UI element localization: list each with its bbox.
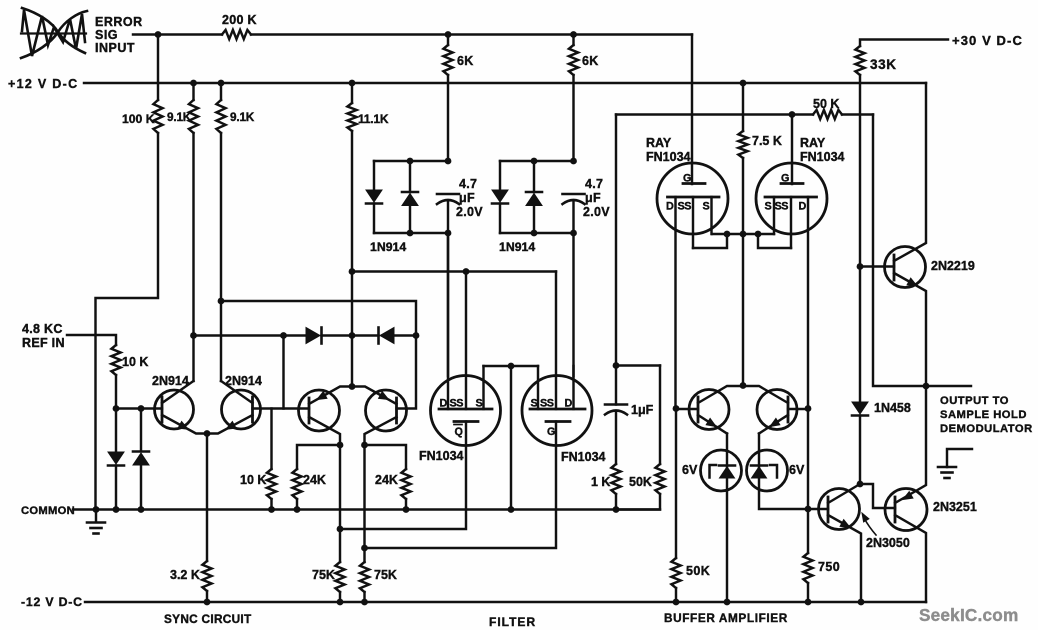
wire Q1 base bus <box>116 407 162 409</box>
svg-text:S: S <box>703 201 710 213</box>
svg-text:6V: 6V <box>682 463 698 477</box>
wire +12V rail <box>84 82 926 84</box>
wire RC network top bus <box>616 364 660 366</box>
diode CR4 1N914 (middle, cathode up) <box>533 161 535 192</box>
node 11.1K substrate tap <box>349 268 356 275</box>
leader arrow to Q8 <box>864 518 876 535</box>
svg-text:50K: 50K <box>686 564 710 578</box>
svg-text:S: S <box>765 201 772 213</box>
resistor R20 50K (Q5 base to -12V) <box>675 409 677 559</box>
wire output line <box>926 385 971 387</box>
svg-text:2N3050: 2N3050 <box>866 536 910 550</box>
wire 50K line left drop to 1uF node <box>615 115 617 366</box>
svg-text:OUTPUT TO: OUTPUT TO <box>940 395 1009 407</box>
svg-text:2N914: 2N914 <box>225 374 262 388</box>
svg-text:D: D <box>799 201 807 213</box>
wire clamp-2 to Q11 drain <box>572 233 574 376</box>
svg-text:33K: 33K <box>870 57 897 72</box>
node Q10 SS tap <box>463 268 470 275</box>
svg-text:FILTER: FILTER <box>489 615 536 629</box>
wire 6K-1 to clamp 1 <box>447 75 449 161</box>
wire Q3 collector to 75K and gate line <box>339 445 341 562</box>
svg-text:750: 750 <box>818 560 840 574</box>
wire Q2 base bus to Q3 <box>253 407 310 409</box>
wire 6K-2 to clamp 2 <box>572 75 574 161</box>
node 6K-1 top junction <box>445 31 452 38</box>
node -12V junctions <box>204 599 211 606</box>
resistor R4 9.1K <box>192 83 194 100</box>
svg-text:1N458: 1N458 <box>874 401 911 415</box>
svg-text:D: D <box>565 398 573 410</box>
wire 100K down to sync corner <box>96 133 159 510</box>
svg-text:75K: 75K <box>374 568 397 582</box>
svg-text:24K: 24K <box>375 473 398 487</box>
wire VR2 to Q8 base <box>759 434 828 510</box>
diode CR8 (steering, pointing left) <box>352 334 379 336</box>
node Q6 base (U2 drain) <box>805 405 812 412</box>
wire source bus <box>712 233 774 235</box>
resistor R7 6K <box>447 35 449 46</box>
svg-text:S: S <box>531 398 538 410</box>
svg-text:4.7: 4.7 <box>585 177 603 191</box>
svg-text:2N914: 2N914 <box>152 374 189 388</box>
svg-text:50K: 50K <box>629 475 652 489</box>
wire 4.8KC ref input <box>67 335 116 345</box>
node base bus diode tap <box>138 405 145 412</box>
wire U2 substrate bracket <box>758 234 791 248</box>
diode CR3 1N914 (left, cathode down) <box>499 161 501 190</box>
wire 33K line to 1N458 <box>859 267 861 403</box>
FET U2 RAY FN1034 (buffer right) <box>756 163 827 234</box>
svg-text:2.0V: 2.0V <box>583 205 610 219</box>
svg-text:REF IN: REF IN <box>22 336 65 350</box>
svg-text:G: G <box>547 426 555 438</box>
svg-text:FN1034: FN1034 <box>561 450 606 464</box>
wire cross-coupling riser to diode line <box>282 336 284 409</box>
wire Q4 collector to 75K and gate line <box>363 445 365 562</box>
svg-text:SeekIC.com: SeekIC.com <box>919 605 1018 625</box>
resistor R12 24K <box>365 445 407 469</box>
wire U2 gate from 50K feedback line <box>791 115 793 185</box>
wire 7.5K to source bus and collector bus <box>742 234 744 386</box>
svg-text:SIG: SIG <box>95 28 118 42</box>
resistor R21 750 <box>807 409 809 554</box>
svg-text:D: D <box>666 201 674 213</box>
svg-text:6K: 6K <box>457 54 474 68</box>
wire clamp-1 bottom bus <box>374 232 448 234</box>
svg-text:10 K: 10 K <box>240 473 266 487</box>
node 7.5K top <box>740 80 747 87</box>
svg-text:ERROR: ERROR <box>95 15 143 29</box>
FET Q10 FN1034 (filter left) <box>431 376 501 446</box>
svg-text:FN1034: FN1034 <box>419 449 464 463</box>
svg-text:75K: 75K <box>312 568 335 582</box>
resistor R3 100K <box>157 35 159 101</box>
svg-text:1 K: 1 K <box>591 475 610 489</box>
transistor Q6 (buffer right) <box>757 390 797 430</box>
node base bus left <box>113 405 120 412</box>
node Q4 collector node <box>361 442 368 449</box>
wire 9.1K-2 to Q2 collector <box>220 133 222 381</box>
node clamp-1 junctions <box>407 158 414 165</box>
capacitor C3 1uF <box>615 366 617 405</box>
wire -12V rail <box>85 601 926 603</box>
node Q8 collector / Q9 base junction <box>857 481 864 488</box>
node diode line tap T1 collector <box>190 332 197 339</box>
zener VR1 6V <box>701 450 742 491</box>
svg-text:7.5 K: 7.5 K <box>752 134 782 148</box>
resistor R8 6K <box>572 35 574 46</box>
svg-text:G: G <box>781 173 789 185</box>
svg-text:100 K: 100 K <box>122 112 155 126</box>
svg-text:-12 V D-C: -12 V D-C <box>21 595 83 609</box>
node Q5 Q6 collector junction <box>740 382 747 389</box>
wire Q10 source to Q11 source bracket <box>484 365 539 367</box>
svg-text:1μF: 1μF <box>631 403 654 417</box>
svg-text:24K: 24K <box>303 473 326 487</box>
node gate drive 2 tap <box>361 545 368 552</box>
wire VR1 to -12V <box>726 434 728 603</box>
diode CR6 (ref clamp, cathode up) <box>133 450 149 453</box>
wire 1N458 to Q8 collector <box>859 416 861 485</box>
transistor Q8 2N3050 <box>819 489 860 530</box>
svg-text:D: D <box>440 398 448 410</box>
node 9.1K-1 top <box>190 80 197 87</box>
wire Q11 gate drive <box>365 422 557 549</box>
wire +30V supply <box>860 40 948 47</box>
svg-text:3.2 K: 3.2 K <box>170 568 200 582</box>
wire steering diode line <box>194 334 307 336</box>
svg-text:6K: 6K <box>582 54 599 68</box>
svg-text:2.0V: 2.0V <box>456 205 483 219</box>
resistor R1 200K <box>222 30 251 39</box>
node gate drive 1 tap <box>337 526 344 533</box>
svg-text:SS: SS <box>540 398 554 410</box>
node diode line T3 base tap <box>280 332 287 339</box>
wire 33K to 2N2219 base and 1N458 <box>859 75 861 267</box>
diode CR9 1N458 <box>852 402 868 414</box>
wire clamp-2 bottom bus <box>500 232 574 234</box>
svg-text:+12 V D-C: +12 V D-C <box>8 77 78 91</box>
FET U1 RAY FN1034 (buffer left) <box>657 163 728 234</box>
FET Q11 FN1034 (filter right) <box>522 376 592 446</box>
resistor R15 3.2K <box>206 434 208 562</box>
node Q1 Q2 emitter junction <box>204 430 211 437</box>
wire clamp-2 top bus <box>500 160 574 162</box>
wire 9.1K-1 to Q1 collector <box>192 133 194 336</box>
node Q5 base (U1 drain) <box>673 405 680 412</box>
svg-text:2N2219: 2N2219 <box>931 259 975 273</box>
ground (output reference) <box>947 449 972 467</box>
svg-text:DEMODULATOR: DEMODULATOR <box>940 423 1033 435</box>
svg-text:Q: Q <box>455 426 463 438</box>
wire COMMON rail <box>73 508 660 510</box>
wire error signal line to 200K and gate of U1 <box>133 33 222 35</box>
node 6K-2 top junction <box>570 31 577 38</box>
svg-text:9.1K: 9.1K <box>230 110 255 124</box>
svg-text:200 K: 200 K <box>222 13 257 27</box>
node output junction <box>923 383 930 390</box>
node error input junction <box>155 31 162 38</box>
svg-text:11.1K: 11.1K <box>358 112 389 126</box>
svg-text:RAY: RAY <box>800 136 826 150</box>
svg-text:9.1K: 9.1K <box>167 110 192 124</box>
wire U1 substrate bracket <box>693 234 727 248</box>
transistor Q5 (buffer left) <box>689 390 729 430</box>
svg-text:S: S <box>476 398 483 410</box>
svg-text:4.8 KC: 4.8 KC <box>22 322 63 336</box>
svg-text:μF: μF <box>585 191 601 205</box>
svg-text:BUFFER AMPLIFIER: BUFFER AMPLIFIER <box>664 611 788 625</box>
svg-text:50 K: 50 K <box>813 97 839 111</box>
svg-text:COMMON: COMMON <box>21 505 75 517</box>
waveform icon: error signal (modulated wave) <box>21 8 87 58</box>
wire Q2 collector to Q4 base (cross-coupling) <box>221 301 416 409</box>
node U2 gate tap <box>789 111 796 118</box>
svg-text:6V: 6V <box>789 463 805 477</box>
resistor R17 50K <box>659 366 661 465</box>
node Q3 Q4 emitter junction <box>349 383 356 390</box>
node common junctions <box>93 506 100 513</box>
resistor R14 75K <box>360 562 369 592</box>
transistor Q3 (sync PNP left) <box>299 390 340 431</box>
wire 11.1K tap to filter FET substrate line <box>352 270 556 272</box>
resistor R13 75K <box>335 562 344 592</box>
svg-text:SAMPLE HOLD: SAMPLE HOLD <box>940 409 1027 421</box>
resistor R5 9.1K <box>220 83 222 100</box>
svg-text:4.7: 4.7 <box>459 177 477 191</box>
resistor R9 10K <box>111 345 120 375</box>
resistor R10 10K (Q2 base to common) <box>270 409 272 470</box>
svg-text:SYNC CIRCUIT: SYNC CIRCUIT <box>164 612 252 626</box>
transistor Q4 (sync PNP right) <box>366 390 407 431</box>
wire feedback to output <box>873 115 926 387</box>
resistor R11 24K <box>297 445 340 469</box>
svg-text:RAY: RAY <box>646 136 672 150</box>
diode CR1 1N914 (left, cathode down) <box>373 161 375 190</box>
svg-text:INPUT: INPUT <box>95 41 135 55</box>
node Q3 collector node <box>337 442 344 449</box>
zener VR2 6V <box>747 450 788 491</box>
resistor R18 7.5K <box>742 83 744 131</box>
svg-text:μF: μF <box>459 191 475 205</box>
ground (common) <box>95 510 97 523</box>
node Q8 base / 750 tap <box>805 506 812 513</box>
svg-text:10 K: 10 K <box>122 355 148 369</box>
node clamp-2 junctions <box>531 158 538 165</box>
resistor R19 50K (feedback) <box>813 110 842 119</box>
diode CR2 1N914 (middle, cathode up) <box>409 161 411 192</box>
node source bracket to common <box>508 363 515 370</box>
resistor R2 33K <box>855 46 864 75</box>
svg-text:SS: SS <box>678 201 692 213</box>
node 9.1K-2 top <box>218 80 225 87</box>
wire 50K feedback line <box>616 113 813 115</box>
wire Q10 gate drive <box>340 422 466 530</box>
resistor R6 11.1K <box>351 83 353 103</box>
node 1uF top <box>613 362 620 369</box>
node Q7 base tap on 33K line <box>857 263 864 270</box>
node Q2 collector tap <box>218 298 225 305</box>
svg-text:SS: SS <box>450 398 464 410</box>
diode CR5 (ref clamp, cathode down) <box>140 409 142 452</box>
capacitor C1 4.7uF 2.0V <box>437 193 459 196</box>
svg-text:G: G <box>683 173 691 185</box>
resistor R16 1K <box>611 464 620 494</box>
node diode line right end <box>413 332 420 339</box>
svg-text:SS: SS <box>775 201 789 213</box>
svg-text:1N914: 1N914 <box>499 240 535 254</box>
wire clamp-1 to Q10 drain <box>447 233 449 376</box>
svg-text:1N914: 1N914 <box>370 240 406 254</box>
svg-text:2N3251: 2N3251 <box>933 500 977 514</box>
wire 11.1K to emitter node of Q3 Q4 <box>351 131 353 386</box>
wire clamp-1 top bus <box>374 160 448 162</box>
node diode line center (emitter node riser) <box>349 332 356 339</box>
svg-text:FN1034: FN1034 <box>646 150 691 164</box>
node 11.1K top <box>349 80 356 87</box>
svg-text:+30 V D-C: +30 V D-C <box>952 33 1023 48</box>
capacitor C2 4.7uF 2.0V <box>563 193 585 196</box>
diode CR7 (steering, pointing right) <box>306 328 320 344</box>
svg-text:FN1034: FN1034 <box>800 150 845 164</box>
